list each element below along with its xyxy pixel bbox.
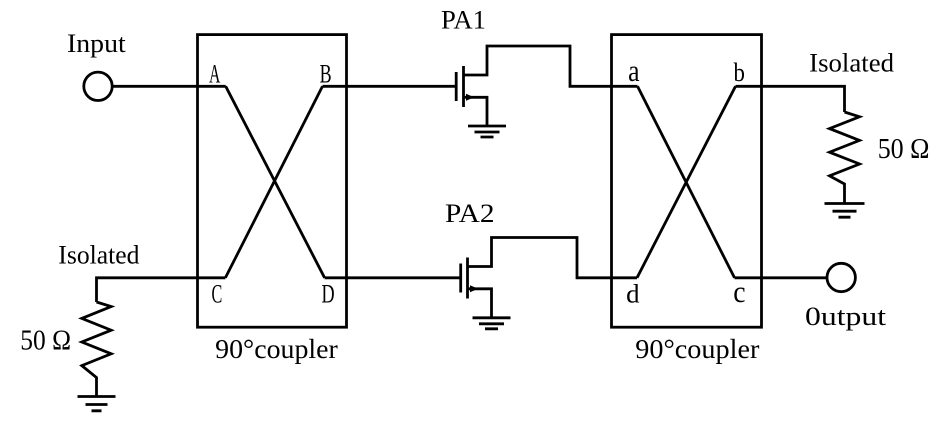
wire: Q1 source to ground bbox=[464, 97, 488, 126]
wire: input port to coupler U1 pin A bbox=[112, 85, 226, 88]
svg-text:d: d bbox=[626, 279, 639, 308]
wire: coupler U1 pin B to PA1 gate bbox=[323, 85, 456, 88]
wire: Q2 source to ground bbox=[468, 289, 492, 318]
transistor Q1 (PA1) gate bar bbox=[455, 72, 458, 101]
svg-text:50 Ω: 50 Ω bbox=[878, 133, 930, 165]
svg-text:b: b bbox=[734, 58, 745, 87]
svg-text:PA2: PA2 bbox=[445, 199, 495, 228]
svg-text:B: B bbox=[320, 59, 332, 88]
svg-text:D: D bbox=[322, 279, 335, 308]
resistor R2 (right 50 ohm) bbox=[830, 112, 860, 204]
coupler U2 box (90° coupler #2) bbox=[612, 35, 762, 328]
svg-text:90°coupler: 90°coupler bbox=[215, 333, 338, 364]
svg-text:PA1: PA1 bbox=[441, 6, 486, 35]
transistor Q2 source arrow bbox=[470, 285, 478, 292]
svg-text:0utput: 0utput bbox=[805, 302, 887, 331]
svg-text:A: A bbox=[209, 59, 221, 88]
svg-text:Isolated: Isolated bbox=[58, 240, 139, 269]
coupler U1 internal path A to D bbox=[226, 86, 325, 277]
transistor Q1 channel bar bbox=[462, 66, 465, 107]
coupler U2 internal path b to d bbox=[637, 86, 736, 277]
port: input terminal circle bbox=[84, 72, 112, 100]
ground (R1) bbox=[78, 397, 116, 411]
transistor Q1 source arrow bbox=[466, 94, 474, 101]
coupler U1 internal path B to C bbox=[225, 86, 322, 277]
port: output terminal circle bbox=[827, 263, 855, 291]
ground (R2) bbox=[825, 204, 865, 218]
svg-text:Isolated: Isolated bbox=[809, 49, 894, 78]
ground (Q1 source) bbox=[468, 126, 506, 137]
wire: Q1 drain to coupler U2 pin a bbox=[464, 46, 638, 86]
transistor Q2 (PA2) gate bar bbox=[459, 264, 462, 293]
wire: coupler U1 pin C to left 50 ohm resistor bbox=[97, 278, 226, 302]
wire: coupler U2 pin c to output port bbox=[735, 276, 828, 279]
transistor Q2 channel bar bbox=[466, 258, 469, 299]
wire: coupler U1 pin D to PA2 gate bbox=[325, 276, 460, 279]
svg-text:Input: Input bbox=[67, 29, 127, 58]
wire: coupler U2 pin b to right 50 ohm resistor bbox=[736, 86, 845, 112]
resistor R1 (left 50 ohm) bbox=[82, 302, 111, 397]
svg-text:50 Ω: 50 Ω bbox=[20, 325, 71, 357]
coupler U1 box (90° coupler #1) bbox=[198, 35, 347, 328]
svg-text:a: a bbox=[628, 53, 640, 88]
wire: Q2 drain to coupler U2 pin d bbox=[468, 238, 638, 278]
coupler U2 internal path a to c bbox=[638, 86, 735, 277]
ground (Q2 source) bbox=[473, 318, 511, 329]
svg-text:C: C bbox=[212, 279, 223, 308]
svg-text:90°coupler: 90°coupler bbox=[635, 333, 759, 364]
svg-text:c: c bbox=[733, 274, 745, 309]
